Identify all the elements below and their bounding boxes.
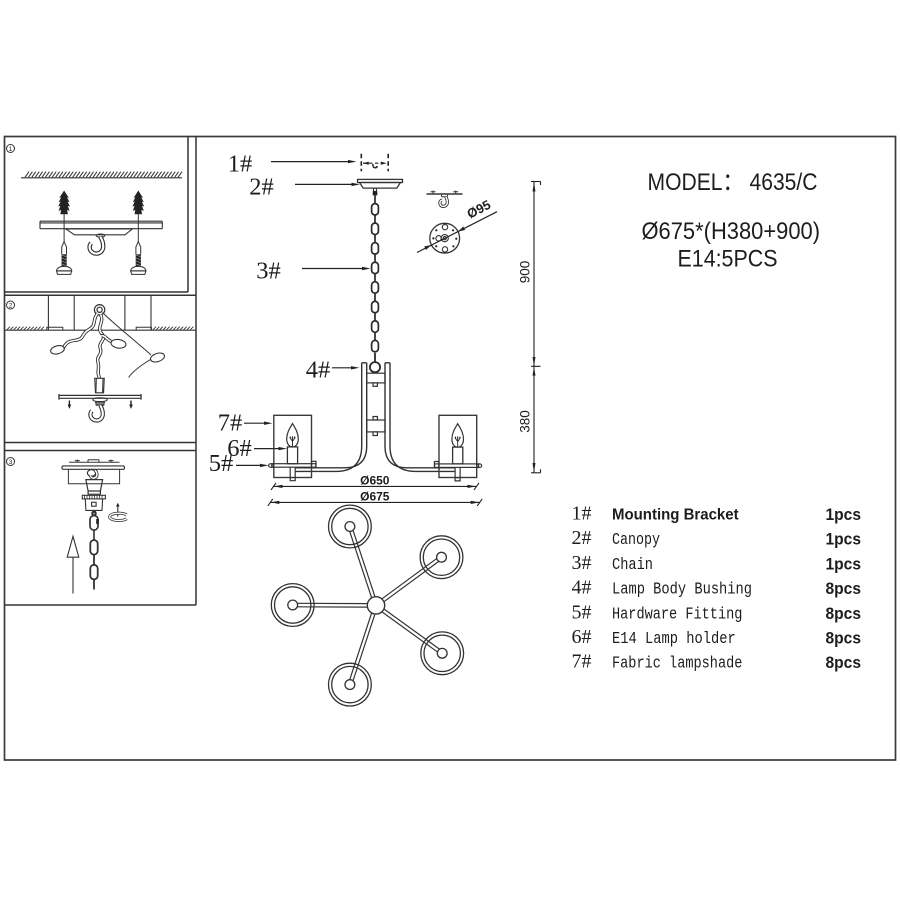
panel 3 top border bbox=[5, 450, 197, 452]
mounting bracket dashed bbox=[361, 154, 388, 171]
svg-text:Fabric lampshade: Fabric lampshade bbox=[612, 654, 742, 673]
svg-text:Chain: Chain bbox=[612, 555, 653, 574]
candle flame left bbox=[287, 424, 299, 447]
hook detail bbox=[440, 197, 448, 207]
svg-text:8pcs: 8pcs bbox=[826, 629, 862, 648]
top view shade 4 bbox=[421, 632, 464, 675]
left column divider bbox=[195, 137, 197, 606]
svg-text:3#: 3# bbox=[256, 258, 281, 285]
filament mark left bbox=[290, 438, 295, 447]
screw left bbox=[57, 242, 72, 275]
leader arrow 7# bbox=[244, 422, 264, 424]
svg-text:Ø675: Ø675 bbox=[360, 490, 390, 504]
thin wire to right loop bbox=[103, 313, 152, 378]
svg-text:Ø95: Ø95 bbox=[464, 197, 493, 222]
svg-text:1pcs: 1pcs bbox=[826, 554, 862, 573]
svg-text:1pcs: 1pcs bbox=[826, 530, 862, 549]
top view arm 5 bbox=[350, 613, 375, 680]
leader arrow 1# bbox=[271, 161, 348, 163]
screw guide lines bbox=[64, 214, 138, 243]
leader arrow 6# bbox=[254, 448, 279, 450]
svg-text:MODEL： 4635/C: MODEL： 4635/C bbox=[648, 169, 818, 196]
threaded flange bbox=[82, 495, 105, 499]
svg-text:2: 2 bbox=[9, 303, 13, 310]
wire loop end left bbox=[50, 344, 66, 355]
canopy plate bbox=[358, 179, 403, 188]
svg-text:1#: 1# bbox=[572, 503, 592, 525]
ceiling recess tabs bbox=[47, 327, 152, 330]
washer and nut bbox=[93, 398, 107, 406]
plate diameter leader line bbox=[417, 212, 497, 253]
press arrow left bbox=[68, 401, 70, 405]
svg-text:Canopy: Canopy bbox=[612, 530, 660, 549]
hook base bbox=[96, 234, 105, 237]
fabric lampshade right bbox=[439, 415, 477, 477]
wall anchor plug right bbox=[132, 191, 144, 215]
stem below holder left bbox=[290, 467, 295, 481]
circled step number 2 bbox=[7, 301, 15, 309]
E14 lamp holder right bbox=[453, 447, 463, 464]
ceiling hatch panel1 bbox=[21, 177, 182, 179]
wire loop end right bbox=[149, 351, 165, 363]
circled step number 3 bbox=[7, 458, 15, 466]
mounting plate detail bbox=[430, 223, 460, 253]
leader arrow 5# bbox=[236, 464, 260, 466]
hook panel2 bbox=[90, 405, 102, 420]
svg-text:8pcs: 8pcs bbox=[826, 604, 862, 623]
chain panel3 bbox=[93, 531, 95, 540]
candle flame right bbox=[452, 424, 464, 447]
ceiling bracket thin bar bbox=[69, 460, 120, 463]
top view hub bbox=[367, 597, 384, 614]
suspension ring 4# bbox=[370, 353, 380, 372]
svg-text:6#: 6# bbox=[572, 626, 592, 648]
lamp body bushing lower bbox=[367, 417, 385, 436]
swivel eye and hook bbox=[87, 470, 95, 477]
press arrow right bbox=[130, 401, 132, 405]
panel 1 box bbox=[187, 137, 189, 293]
top view arm 3 bbox=[298, 603, 368, 607]
svg-text:5#: 5# bbox=[209, 450, 234, 477]
top view shade 2 bbox=[420, 536, 463, 579]
svg-text:E14:5PCS: E14:5PCS bbox=[678, 246, 778, 273]
border frame bbox=[5, 137, 896, 761]
svg-text:4#: 4# bbox=[306, 357, 331, 384]
dimension line 675 bbox=[268, 499, 482, 506]
lamp body bushing upper bbox=[367, 373, 385, 386]
svg-text:2#: 2# bbox=[249, 174, 274, 201]
wire branch to middle loop bbox=[101, 336, 112, 342]
svg-text:8pcs: 8pcs bbox=[826, 653, 862, 672]
panel 3 bottom border bbox=[5, 604, 197, 606]
svg-text:4#: 4# bbox=[572, 577, 592, 599]
svg-text:Lamp Body Bushing: Lamp Body Bushing bbox=[612, 580, 752, 599]
svg-text:3#: 3# bbox=[572, 552, 592, 574]
stem below holder right bbox=[455, 467, 460, 481]
top view arm 4 bbox=[382, 609, 439, 652]
panel 2 top border bbox=[5, 294, 197, 296]
svg-text:7#: 7# bbox=[218, 410, 243, 437]
tangled wire main left bbox=[63, 314, 98, 348]
svg-text:Hardware Fitting: Hardware Fitting bbox=[612, 604, 742, 623]
panel 2 bottom border bbox=[5, 442, 197, 444]
svg-text:Ø650: Ø650 bbox=[360, 474, 390, 488]
canopy mounting bar bbox=[62, 466, 125, 469]
bracket hook mark bbox=[373, 164, 377, 168]
ceiling joists bbox=[5, 295, 197, 330]
top view shade 5 bbox=[329, 663, 372, 706]
svg-text:5#: 5# bbox=[572, 601, 592, 623]
chain bbox=[372, 195, 379, 351]
canopy cone bbox=[86, 480, 103, 495]
leader arrow 2# bbox=[295, 183, 352, 185]
bracket bar panel2 bbox=[59, 394, 141, 400]
vertical dimension line bbox=[531, 182, 541, 473]
svg-text:Mounting Bracket: Mounting Bracket bbox=[612, 507, 739, 524]
mounting bracket bar bbox=[40, 221, 162, 229]
canopy stem bbox=[374, 188, 377, 191]
svg-text:2#: 2# bbox=[572, 527, 592, 549]
ceiling recess box bbox=[68, 469, 119, 484]
svg-text:900: 900 bbox=[518, 261, 533, 284]
hardware fitting bar right bbox=[434, 462, 481, 468]
svg-text:8pcs: 8pcs bbox=[826, 579, 862, 598]
svg-text:E14 Lamp holder: E14 Lamp holder bbox=[612, 629, 736, 648]
svg-text:1pcs: 1pcs bbox=[826, 505, 862, 524]
svg-text:7#: 7# bbox=[572, 651, 592, 673]
top view arm 2 bbox=[382, 559, 439, 602]
top view arm 1 bbox=[350, 531, 375, 598]
ceiling hook bbox=[90, 237, 104, 254]
fabric lampshade left bbox=[274, 415, 312, 477]
svg-text:380: 380 bbox=[518, 410, 533, 433]
wire sleeve bbox=[95, 378, 104, 393]
svg-text:3: 3 bbox=[9, 459, 13, 466]
ceiling hatch right bbox=[153, 327, 193, 330]
socket cup bbox=[85, 499, 102, 513]
svg-text:1: 1 bbox=[9, 146, 13, 153]
central column tubes bbox=[296, 363, 455, 472]
leader arrow 4# bbox=[332, 367, 351, 369]
svg-text:Ø675*(H380+900): Ø675*(H380+900) bbox=[642, 218, 821, 245]
leader arrow 3# bbox=[302, 268, 362, 270]
top view shade 1 bbox=[329, 505, 372, 548]
hardware fitting bar left bbox=[269, 461, 316, 467]
tangled wire main center bbox=[98, 315, 104, 379]
wall anchor plug left bbox=[58, 191, 70, 215]
canopy trapezoid top view bbox=[66, 229, 133, 235]
lift arrow bbox=[67, 536, 79, 593]
filament mark right bbox=[455, 438, 460, 447]
dimension line 650 bbox=[271, 483, 479, 490]
anchor eye circle bbox=[94, 305, 104, 315]
quick link connector bbox=[90, 511, 98, 530]
rotate arrow symbol bbox=[117, 507, 119, 517]
ceiling hook bracket detail bbox=[427, 193, 463, 195]
E14 lamp holder left bbox=[287, 447, 297, 464]
wire loop end middle bbox=[110, 338, 126, 349]
screw right bbox=[131, 242, 146, 275]
circled step number 1 bbox=[7, 145, 15, 153]
top view shade 3 bbox=[271, 584, 314, 627]
ceiling hatch left bbox=[7, 327, 44, 330]
